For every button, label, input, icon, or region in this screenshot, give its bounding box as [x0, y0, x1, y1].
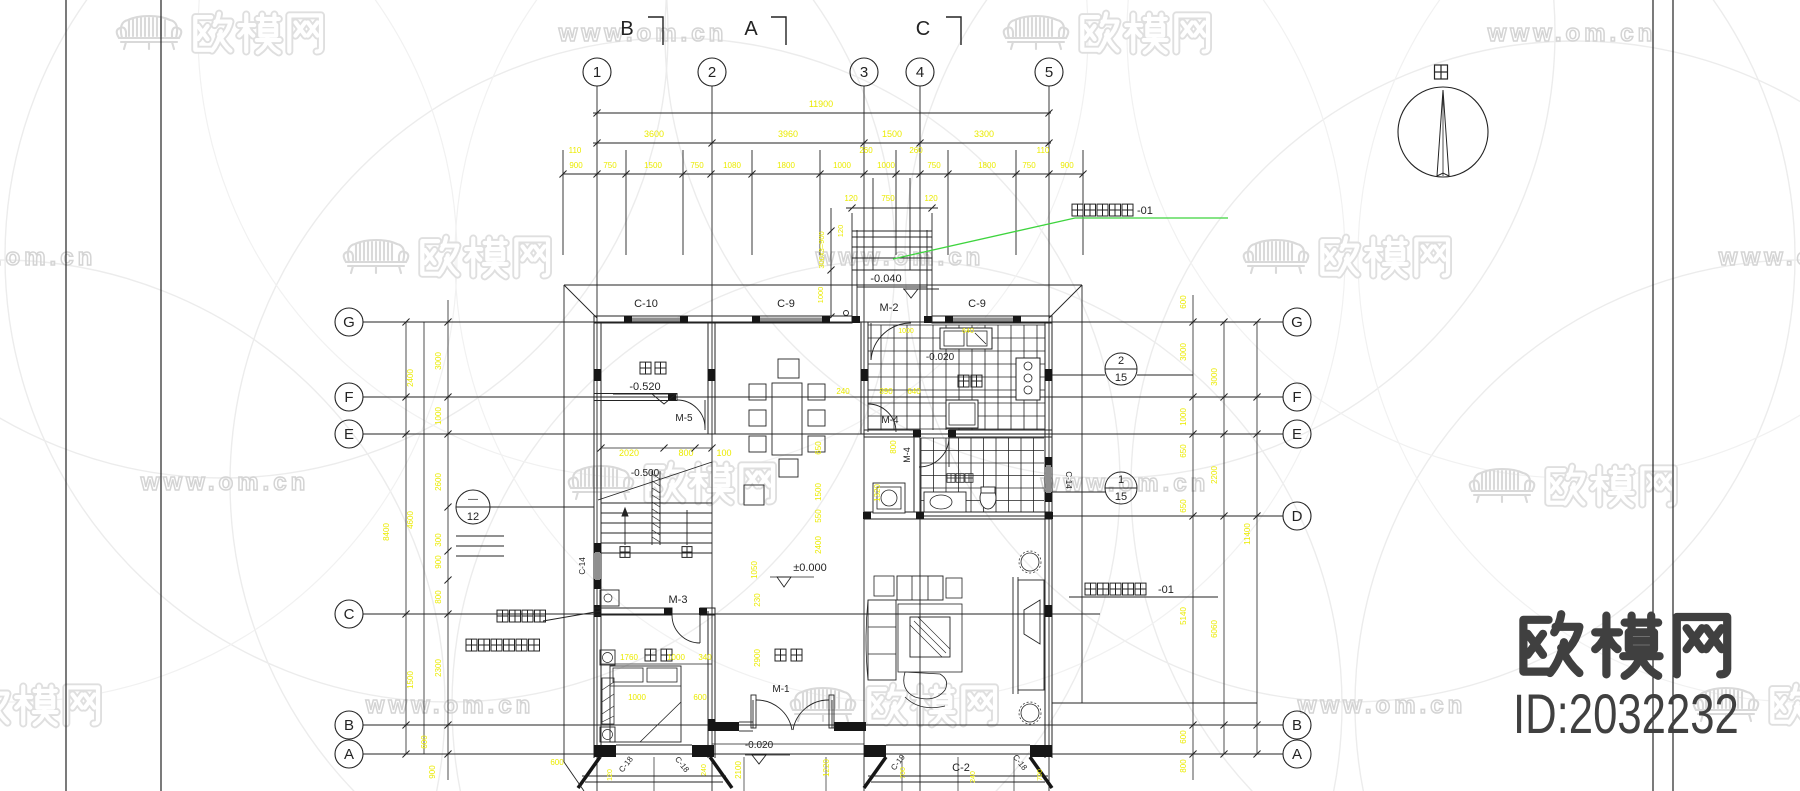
svg-text:890: 890: [879, 387, 893, 396]
svg-text:www.om.cn: www.om.cn: [1487, 20, 1656, 47]
svg-text:1000: 1000: [816, 287, 825, 304]
svg-text:650: 650: [1179, 499, 1188, 513]
svg-text:C-14: C-14: [578, 557, 587, 575]
svg-text:2200: 2200: [1210, 466, 1219, 484]
svg-text:1500: 1500: [882, 129, 902, 139]
svg-text:2600: 2600: [434, 473, 443, 491]
svg-text:900: 900: [569, 161, 583, 170]
svg-text:-01: -01: [1137, 205, 1153, 217]
svg-text:3000: 3000: [1210, 368, 1219, 386]
svg-text:F: F: [344, 389, 353, 406]
svg-text:800: 800: [678, 448, 693, 458]
svg-text:3000: 3000: [434, 352, 443, 370]
svg-text:3: 3: [860, 64, 868, 81]
svg-text:1800: 1800: [978, 161, 996, 170]
svg-text:650: 650: [814, 441, 823, 455]
svg-text:3300: 3300: [974, 129, 994, 139]
svg-text:D: D: [1292, 508, 1303, 525]
svg-text:11400: 11400: [1243, 523, 1252, 545]
svg-text:1: 1: [593, 64, 601, 81]
svg-text:1000: 1000: [667, 653, 685, 662]
svg-text:www.om.cn: www.om.cn: [1297, 692, 1466, 719]
svg-text:1500: 1500: [814, 483, 823, 501]
svg-text:900: 900: [434, 555, 443, 569]
svg-text:C: C: [344, 606, 355, 623]
svg-text:600: 600: [693, 693, 707, 702]
svg-text:900: 900: [1060, 161, 1074, 170]
svg-text:E: E: [344, 426, 354, 443]
svg-text:1000: 1000: [833, 161, 851, 170]
svg-text:640: 640: [962, 328, 974, 335]
svg-text:300x3=900: 300x3=900: [817, 231, 826, 268]
svg-text:700: 700: [900, 767, 907, 779]
svg-text:600: 600: [420, 735, 429, 749]
svg-text:240: 240: [701, 764, 708, 776]
svg-text:340: 340: [698, 653, 712, 662]
svg-text:260: 260: [909, 146, 923, 155]
svg-text:B: B: [620, 18, 633, 40]
svg-text:C-2: C-2: [952, 762, 970, 774]
svg-text:120: 120: [607, 769, 614, 781]
svg-text:ID:2032232: ID:2032232: [1513, 683, 1739, 745]
svg-text:2400: 2400: [406, 369, 415, 387]
svg-text:15: 15: [1115, 491, 1127, 503]
svg-text:800: 800: [889, 440, 898, 454]
svg-text:300: 300: [434, 533, 443, 547]
svg-text:M-4: M-4: [902, 447, 912, 463]
svg-text:-0.040: -0.040: [870, 273, 901, 285]
svg-text:-01: -01: [1158, 584, 1174, 596]
svg-text:5140: 5140: [1179, 607, 1188, 625]
svg-text:1000: 1000: [434, 407, 443, 425]
svg-text:-0.020: -0.020: [745, 740, 774, 751]
svg-text:A: A: [344, 746, 354, 763]
svg-text:1500: 1500: [406, 671, 415, 689]
svg-text:110: 110: [569, 146, 582, 155]
svg-text:G: G: [1291, 314, 1303, 331]
svg-text:C-14: C-14: [1064, 471, 1073, 489]
svg-text:B: B: [1292, 717, 1302, 734]
svg-text:4: 4: [916, 64, 924, 81]
svg-text:www.om.cn: www.om.cn: [140, 469, 309, 496]
svg-text:900: 900: [428, 765, 437, 779]
svg-text:640: 640: [907, 387, 921, 396]
svg-text:www.om.cn: www.om.cn: [365, 692, 534, 719]
svg-text:C-10: C-10: [634, 298, 658, 310]
svg-text:-0.500: -0.500: [631, 468, 660, 479]
svg-text:240: 240: [970, 771, 977, 783]
svg-text:750: 750: [1022, 161, 1036, 170]
svg-text:3960: 3960: [778, 129, 798, 139]
svg-text:1050: 1050: [750, 561, 759, 579]
svg-text:-0.520: -0.520: [629, 381, 660, 393]
svg-text:5: 5: [1045, 64, 1053, 81]
svg-text:8400: 8400: [382, 523, 391, 541]
svg-text:800: 800: [1179, 759, 1188, 773]
svg-text:E: E: [1292, 426, 1302, 443]
svg-text:3600: 3600: [644, 129, 664, 139]
svg-text:1500: 1500: [644, 161, 662, 170]
svg-text:A: A: [744, 18, 758, 40]
svg-text:750: 750: [603, 161, 617, 170]
svg-text:800: 800: [434, 590, 443, 604]
svg-text:1000: 1000: [877, 161, 895, 170]
svg-text:120: 120: [844, 194, 858, 203]
svg-text:C-9: C-9: [777, 298, 795, 310]
svg-text:750: 750: [881, 194, 895, 203]
svg-text:2400: 2400: [814, 536, 823, 554]
svg-text:2: 2: [1118, 355, 1124, 367]
svg-text:M-2: M-2: [880, 302, 899, 314]
svg-text:M-3: M-3: [669, 594, 688, 606]
svg-text:2020: 2020: [619, 448, 639, 458]
svg-text:1000: 1000: [898, 328, 914, 335]
svg-text:11900: 11900: [809, 99, 833, 109]
svg-text:230: 230: [753, 593, 762, 607]
svg-text:1000: 1000: [628, 693, 646, 702]
svg-text:C-9: C-9: [968, 298, 986, 310]
svg-text:G: G: [343, 314, 355, 331]
svg-text:550: 550: [814, 509, 823, 523]
svg-text:120: 120: [924, 194, 938, 203]
svg-text:1: 1: [1118, 474, 1124, 486]
svg-text:100: 100: [716, 448, 731, 458]
svg-text:M-5: M-5: [675, 413, 693, 424]
svg-text:6060: 6060: [1210, 620, 1219, 638]
svg-text:240: 240: [836, 387, 850, 396]
svg-text:—: —: [468, 494, 478, 505]
svg-text:1220: 1220: [822, 759, 831, 777]
svg-text:B: B: [344, 717, 354, 734]
svg-text:2100: 2100: [734, 761, 743, 779]
svg-text:www.om.cn: www.om.cn: [558, 20, 727, 47]
svg-text:750: 750: [690, 161, 704, 170]
svg-text:2: 2: [708, 64, 716, 81]
svg-text:600: 600: [1179, 730, 1188, 744]
svg-text:750: 750: [927, 161, 941, 170]
svg-text:1320: 1320: [873, 484, 882, 502]
svg-text:M-1: M-1: [772, 684, 790, 695]
svg-text:A: A: [1292, 746, 1302, 763]
svg-text:15: 15: [1115, 372, 1127, 384]
svg-text:2900: 2900: [753, 649, 762, 667]
svg-text:1760: 1760: [620, 653, 638, 662]
svg-text:C: C: [916, 18, 930, 40]
svg-text:120: 120: [836, 225, 845, 238]
svg-text:1080: 1080: [723, 161, 741, 170]
svg-text:650: 650: [1179, 444, 1188, 458]
svg-text:www.om.cn: www.om.cn: [0, 244, 96, 271]
svg-text:-0.020: -0.020: [926, 352, 955, 363]
svg-text:F: F: [1292, 389, 1301, 406]
svg-text:12: 12: [467, 511, 479, 523]
svg-text:±0.000: ±0.000: [793, 562, 827, 574]
svg-text:M-4: M-4: [881, 415, 899, 426]
svg-text:600: 600: [550, 758, 564, 767]
svg-text:600: 600: [1179, 295, 1188, 309]
svg-text:110: 110: [1037, 146, 1050, 155]
svg-text:1800: 1800: [777, 161, 795, 170]
svg-text:700: 700: [1037, 769, 1044, 781]
svg-text:3000: 3000: [1179, 343, 1188, 361]
svg-text:2300: 2300: [434, 659, 443, 677]
svg-text:1000: 1000: [1179, 408, 1188, 426]
svg-text:260: 260: [859, 146, 873, 155]
svg-text:www.om.cn: www.om.cn: [1718, 244, 1800, 271]
svg-text:4600: 4600: [406, 511, 415, 529]
